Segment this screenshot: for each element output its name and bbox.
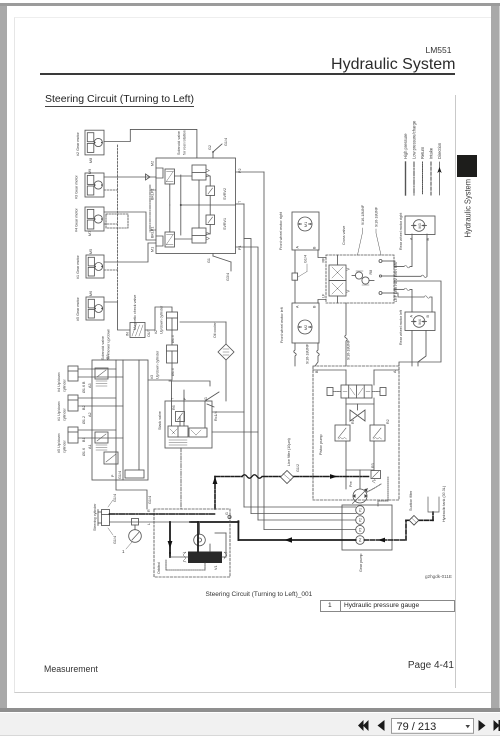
svg-text:cylinder: cylinder bbox=[63, 408, 67, 421]
relief SVRV2 bbox=[206, 186, 215, 196]
svg-text:BKLP2: BKLP2 bbox=[151, 189, 155, 200]
svg-text:G3/4: G3/4 bbox=[226, 273, 230, 281]
viewer bottom shadow band bbox=[0, 708, 500, 712]
stack valve hatch bbox=[169, 440, 187, 445]
wire front B to RF bbox=[318, 250, 326, 258]
drain stubs dashed bbox=[104, 189, 118, 191]
legend labels bbox=[403, 120, 442, 159]
svg-text:M8: M8 bbox=[89, 158, 93, 163]
gear motor M8 (#2) bbox=[85, 130, 104, 155]
steering spool block bbox=[188, 552, 222, 564]
spool valve SV1 bbox=[192, 228, 210, 243]
shuttle valve R8 bbox=[352, 271, 374, 285]
svg-text:Intake: Intake bbox=[429, 147, 434, 159]
Rc1/4 diagonal bbox=[207, 404, 214, 407]
chapter tab vertical text bbox=[459, 178, 475, 238]
svg-text:Ø1.2: Ø1.2 bbox=[82, 416, 86, 424]
hydraulic tank bbox=[428, 497, 439, 512]
svg-text:Ø1.0: Ø1.0 bbox=[171, 368, 175, 376]
svg-text:Magnetic check valve: Magnetic check valve bbox=[133, 295, 137, 330]
svg-text:High pressure: High pressure bbox=[403, 133, 408, 159]
svg-text:9/16-18UNF: 9/16-18UNF bbox=[375, 206, 379, 227]
viewer top shadow band bbox=[0, 3, 500, 6]
solenoid valve sym c bbox=[104, 452, 118, 464]
relief R2 bbox=[370, 425, 385, 441]
svg-text:Gear pump: Gear pump bbox=[359, 554, 363, 572]
svg-text:RF: RF bbox=[322, 257, 326, 263]
svg-text:cylinder: cylinder bbox=[63, 440, 67, 453]
cross valve spool bbox=[329, 255, 350, 303]
svg-text:G1/4: G1/4 bbox=[118, 471, 122, 479]
internal bus bbox=[180, 175, 236, 235]
node G1 bbox=[213, 254, 231, 272]
svg-text:Direction: Direction bbox=[437, 142, 442, 159]
pressure gauge 1 bbox=[129, 530, 142, 543]
footer: Page 4-41 bbox=[408, 660, 454, 671]
stack valve SV bbox=[165, 401, 212, 448]
svg-text:Ø1.6: Ø1.6 bbox=[82, 448, 86, 456]
rear wheel motor right M3 bbox=[405, 216, 435, 235]
front wheel motor left M2 bbox=[292, 303, 319, 343]
port wires to right edge bbox=[382, 261, 394, 293]
header rule bbox=[40, 73, 455, 74]
svg-text:Piston pump: Piston pump bbox=[319, 435, 323, 456]
wire oil cooler bottom bbox=[225, 360, 227, 401]
svg-text:R3: R3 bbox=[371, 463, 375, 468]
gear motor M5 (#1) bbox=[86, 255, 104, 278]
svg-text:#3 Gear motor: #3 Gear motor bbox=[75, 174, 79, 199]
bowtie valve bbox=[346, 404, 374, 421]
gauge leader bbox=[126, 542, 132, 549]
orbitrol internal thin bbox=[166, 533, 226, 570]
svg-text:V1: V1 bbox=[214, 565, 218, 570]
cross valve port circles bbox=[379, 260, 382, 295]
cylinder #1 wires bbox=[78, 398, 123, 406]
gear pump port P3 bbox=[356, 525, 365, 534]
svg-text:P1: P1 bbox=[359, 508, 363, 512]
parts table bbox=[320, 600, 455, 612]
svg-text:#1 Gear motor: #1 Gear motor bbox=[76, 254, 80, 279]
svg-text:BKLP1: BKLP1 bbox=[151, 227, 155, 238]
orbitrol gerotor bbox=[194, 522, 206, 546]
swash directional valve bbox=[341, 385, 372, 398]
scan edge vertical line bbox=[455, 95, 456, 688]
gear pump port P1 bbox=[356, 506, 365, 515]
svg-text:B: B bbox=[313, 246, 317, 249]
svg-text:B: B bbox=[315, 370, 319, 373]
left spool bottom bbox=[165, 205, 175, 247]
orbitrol box bbox=[154, 509, 230, 577]
magnetic check valve bbox=[130, 323, 145, 338]
svg-text:A: A bbox=[296, 246, 300, 249]
node G orbitrol bbox=[228, 515, 231, 518]
svg-text:T: T bbox=[238, 200, 242, 203]
svg-text:M4: M4 bbox=[418, 319, 422, 324]
svg-text:G: G bbox=[225, 512, 229, 515]
footer: Measurement bbox=[44, 664, 98, 674]
hose RRR to rear right B bbox=[394, 234, 427, 278]
svg-text:A: A bbox=[393, 370, 397, 373]
svg-text:SVRV2: SVRV2 bbox=[223, 188, 227, 200]
svg-text:B1: B1 bbox=[82, 437, 86, 442]
hose RRF to rear right A bbox=[394, 234, 412, 268]
up/down cylinder #5 bbox=[68, 427, 78, 443]
svg-text:M7: M7 bbox=[88, 231, 92, 236]
svg-text:G2: G2 bbox=[208, 145, 212, 150]
svg-text:R2: R2 bbox=[386, 419, 390, 424]
valve risers bbox=[313, 370, 399, 425]
svg-text:P: P bbox=[111, 474, 115, 477]
intake arrow bbox=[378, 538, 385, 543]
viewer right gray strip bbox=[491, 6, 499, 710]
svg-text:A: A bbox=[296, 305, 300, 308]
gear motor M6 (#5) bbox=[86, 297, 104, 320]
stack valve top feeds bbox=[169, 381, 210, 401]
line filter diamond bbox=[281, 471, 294, 484]
dotted return RC bbox=[367, 477, 388, 507]
legend high pressure line bbox=[405, 162, 407, 195]
thick charge dash-dot horizontal bbox=[215, 476, 370, 478]
wire M9 to M2 port bbox=[104, 176, 156, 178]
svg-text:P2: P2 bbox=[359, 518, 363, 522]
svg-text:A: A bbox=[410, 315, 414, 318]
svg-text:#3: #3 bbox=[150, 375, 154, 379]
G1/4 leader bbox=[298, 264, 307, 277]
svg-text:1: 1 bbox=[122, 549, 125, 554]
gauge tee bbox=[132, 519, 139, 530]
wire cyl3 to block bbox=[148, 363, 172, 380]
wire M7 to M1 notch bbox=[104, 212, 156, 240]
svg-text:L: L bbox=[147, 523, 151, 525]
hose vertical to pump bbox=[345, 303, 348, 366]
svg-text:M3: M3 bbox=[418, 223, 422, 228]
svg-text:P2: P2 bbox=[238, 168, 242, 173]
cylinder #5 wires bbox=[78, 430, 123, 438]
svg-text:M9: M9 bbox=[88, 169, 92, 174]
solenoid valve sym a bbox=[95, 368, 108, 386]
pump internal drops bbox=[346, 441, 374, 489]
solenoid block (mower up/down) bbox=[92, 360, 148, 480]
svg-text:Front wheel motor right: Front wheel motor right bbox=[279, 212, 283, 250]
G diagonal bbox=[205, 392, 219, 401]
svg-text:G1: G1 bbox=[207, 258, 211, 263]
schematic text part1 bbox=[75, 130, 243, 321]
oil cooler bbox=[218, 344, 234, 360]
svg-text:Pre: Pre bbox=[349, 481, 353, 487]
legend direction arrow bbox=[437, 162, 441, 195]
stack valve right wires bbox=[212, 412, 258, 432]
svg-text:G1/4: G1/4 bbox=[113, 494, 117, 502]
svg-text:M1: M1 bbox=[151, 247, 155, 252]
svg-text:OUT: OUT bbox=[147, 328, 151, 337]
wire M5 to block bbox=[104, 243, 156, 262]
gear pump port P4 bbox=[356, 536, 365, 545]
junction triangle bbox=[146, 174, 151, 180]
svg-text:Ø1.6 B: Ø1.6 B bbox=[82, 381, 86, 393]
feed arrow down bbox=[168, 541, 173, 549]
wire M8 to top port bbox=[104, 129, 197, 158]
thick return line bbox=[190, 521, 356, 540]
orifice wire bbox=[171, 330, 173, 345]
legend low pressure/charge line bbox=[413, 162, 415, 195]
svg-text:G1/4: G1/4 bbox=[148, 496, 152, 504]
wire M6 to magnetic check valve bbox=[104, 302, 130, 330]
svg-text:Oil cooler: Oil cooler bbox=[213, 322, 217, 338]
svg-text:IN: IN bbox=[126, 332, 130, 336]
P1 long drop bbox=[236, 247, 259, 520]
hose LRF to rear left B bbox=[394, 293, 432, 312]
rear wheel motor left M4 bbox=[405, 312, 435, 331]
svg-text:Front wheel motor left: Front wheel motor left bbox=[280, 307, 284, 343]
svg-text:B: B bbox=[426, 315, 430, 318]
thin cylinder return bbox=[110, 521, 191, 523]
svg-text:#4 Up/down: #4 Up/down bbox=[57, 372, 61, 392]
svg-text:9/16-18UNF: 9/16-18UNF bbox=[347, 339, 351, 360]
suction filter diamond bbox=[409, 516, 419, 526]
pilot lines dashed bbox=[327, 388, 386, 396]
svg-text:R6: R6 bbox=[172, 405, 176, 410]
svg-text:A3: A3 bbox=[88, 383, 92, 388]
up/down cylinder #2 bbox=[167, 312, 178, 330]
wires rear left down to pump bbox=[412, 331, 426, 367]
svg-text:Solenoid valve: Solenoid valve bbox=[177, 131, 181, 155]
solenoid valve sym b bbox=[95, 432, 108, 450]
wires front-left down to pump B bbox=[294, 343, 320, 366]
up/down cylinder #4 bbox=[68, 366, 78, 381]
wire oil cooler top bbox=[225, 322, 227, 344]
svg-text:G1/2: G1/2 bbox=[296, 464, 300, 472]
svg-text:Up/down cylinder: Up/down cylinder bbox=[156, 350, 160, 379]
bottom toolbar bbox=[0, 713, 500, 736]
relief R6 bbox=[176, 412, 185, 422]
stack valve internal wires bbox=[172, 401, 206, 428]
svg-text:Rc1/4: Rc1/4 bbox=[214, 411, 218, 421]
svg-text:LF: LF bbox=[322, 293, 326, 298]
svg-text:P4: P4 bbox=[359, 538, 363, 542]
toolbar controls bbox=[0, 713, 500, 736]
svg-text:G1/4: G1/4 bbox=[113, 536, 117, 544]
return arrow bbox=[285, 537, 293, 543]
svg-text:#5 Gear motor: #5 Gear motor bbox=[76, 296, 80, 321]
svg-text:Solenoid valve: Solenoid valve bbox=[101, 336, 105, 360]
dash-dot brake lines BKLP bbox=[150, 185, 156, 232]
svg-text:LRF LRR REV RRR RRF: LRF LRR REV RRR RRF bbox=[394, 260, 398, 302]
wire front-left B to LF bbox=[318, 300, 326, 304]
svg-text:9/16-18UNF: 9/16-18UNF bbox=[306, 343, 310, 364]
piston pump assembly box bbox=[313, 366, 399, 500]
svg-text:9/16-18UNF: 9/16-18UNF bbox=[361, 204, 365, 225]
svg-text:#2: #2 bbox=[154, 330, 158, 334]
gear pump body bbox=[342, 505, 392, 550]
dashed pilot box near M7 bbox=[106, 214, 128, 228]
svg-text:Suction filter: Suction filter bbox=[409, 490, 413, 511]
legend return line bbox=[422, 162, 424, 195]
hose squiggle bbox=[242, 475, 262, 479]
block buses bbox=[116, 360, 139, 480]
up/down cylinder #3 bbox=[167, 345, 178, 363]
case drain dashed bus bbox=[117, 145, 119, 302]
charge arrow up bbox=[213, 477, 218, 485]
charge arrow right bbox=[330, 474, 338, 479]
gear motor M7 (#4) bbox=[85, 207, 104, 231]
svg-text:Steering cylinder: Steering cylinder bbox=[93, 503, 97, 531]
svg-text:R: R bbox=[147, 509, 151, 512]
svg-text:#4 Gear motor: #4 Gear motor bbox=[75, 207, 79, 232]
svg-text:#5 Up/down: #5 Up/down bbox=[57, 433, 61, 453]
P2 return bbox=[264, 529, 356, 531]
thick charge dash-dot up bbox=[214, 477, 216, 510]
svg-text:Stack valve: Stack valve bbox=[158, 411, 162, 430]
svg-text:B3: B3 bbox=[106, 354, 110, 359]
spool riser thick bbox=[170, 522, 198, 557]
relief SVRV1 bbox=[206, 215, 215, 225]
svg-text:B2: B2 bbox=[82, 405, 86, 410]
svg-text:cylinder: cylinder bbox=[63, 379, 67, 392]
viewer left gray strip bbox=[0, 6, 7, 710]
svg-text:Return: Return bbox=[420, 146, 425, 159]
svg-text:SVRV1: SVRV1 bbox=[223, 218, 227, 230]
svg-text:M5: M5 bbox=[89, 249, 93, 254]
svg-text:Orbitrol: Orbitrol bbox=[157, 562, 161, 574]
T branch drop bbox=[244, 239, 251, 514]
wire P2 from block bbox=[236, 171, 265, 173]
drawing code bbox=[425, 574, 452, 579]
left spool top bbox=[165, 169, 175, 205]
header: model code LM551 bbox=[426, 45, 452, 55]
front wheel motor right M1 bbox=[292, 212, 319, 250]
P2 long drop bbox=[263, 172, 265, 530]
svg-text:A: A bbox=[410, 237, 414, 240]
wire front A line with test port bbox=[292, 250, 298, 303]
T return to P1 bbox=[244, 506, 356, 508]
svg-text:Low pressure/charge: Low pressure/charge bbox=[412, 120, 417, 159]
svg-text:Cross valve: Cross valve bbox=[342, 226, 346, 245]
block bottom fitting bbox=[116, 470, 147, 509]
T long drop bbox=[243, 204, 245, 507]
piston pump circle bbox=[353, 489, 368, 504]
svg-text:Up/down cylinder: Up/down cylinder bbox=[160, 305, 164, 334]
wire check valve out bbox=[145, 307, 172, 330]
svg-text:G: G bbox=[204, 397, 208, 400]
block internal wires bbox=[198, 180, 200, 228]
svg-text:P1: P1 bbox=[238, 245, 242, 250]
wire T from block bbox=[236, 203, 245, 205]
svg-text:B: B bbox=[313, 305, 317, 308]
hose LRR to rear left A bbox=[394, 288, 412, 312]
svg-text:M2: M2 bbox=[304, 325, 308, 330]
REV wire down to pump A bbox=[394, 281, 441, 366]
relief R1 bbox=[335, 425, 350, 441]
svg-text:G1/4: G1/4 bbox=[304, 255, 308, 263]
steering cylinder bbox=[98, 510, 110, 526]
svg-text:R8: R8 bbox=[369, 270, 373, 275]
svg-text:Hydraulic tank (30.3L): Hydraulic tank (30.3L) bbox=[442, 486, 446, 522]
cylinder #4 wires bbox=[78, 369, 123, 377]
svg-text:Ø1.0: Ø1.0 bbox=[171, 335, 175, 343]
gear motor M9 (#3) bbox=[85, 173, 104, 197]
svg-text:for reel rotation: for reel rotation bbox=[183, 130, 187, 155]
spool valve SV2 bbox=[192, 165, 210, 180]
9/16UNF diagonal stubs bbox=[358, 228, 382, 255]
M2 port notch bbox=[156, 168, 163, 178]
svg-text:M6: M6 bbox=[89, 291, 93, 296]
svg-text:R1: R1 bbox=[351, 419, 355, 424]
svg-text:P3: P3 bbox=[359, 528, 363, 532]
svg-text:A2: A2 bbox=[88, 412, 92, 417]
svg-text:Rear wheel motor right: Rear wheel motor right bbox=[399, 213, 403, 250]
gear pump port P2 bbox=[356, 516, 365, 525]
spool springs bbox=[183, 552, 227, 562]
stack valve spool b bbox=[189, 428, 207, 437]
svg-text:Rear wheel motor left: Rear wheel motor left bbox=[399, 310, 403, 345]
svg-text:G1/4: G1/4 bbox=[224, 138, 228, 146]
svg-text:#1 Up/down: #1 Up/down bbox=[57, 401, 61, 421]
legend intake line bbox=[430, 162, 432, 195]
solenoid valve block for reel rotation U1 bbox=[156, 158, 236, 254]
P1 return bbox=[258, 519, 356, 521]
stack valve drop to orbitrol dash-dot bbox=[180, 448, 182, 509]
thick steer dash-dot bbox=[110, 513, 216, 515]
up/down cylinder #1 bbox=[68, 395, 78, 411]
cross valve CV bbox=[326, 255, 394, 303]
stack valve spool a bbox=[168, 426, 188, 437]
svg-text:A1: A1 bbox=[88, 444, 92, 449]
svg-text:M1: M1 bbox=[304, 222, 308, 227]
thick intake dashed bbox=[364, 512, 433, 540]
svg-text:Line filter (10µm): Line filter (10µm) bbox=[287, 438, 291, 466]
figure caption bbox=[206, 591, 313, 598]
node G2 bbox=[212, 144, 222, 158]
branch return bbox=[251, 513, 356, 515]
orbitrol thick feed bbox=[169, 522, 171, 553]
header: chapter title bbox=[331, 56, 455, 74]
M1 port notch bbox=[156, 236, 163, 246]
section heading bbox=[45, 93, 194, 107]
svg-text:M2: M2 bbox=[151, 161, 155, 166]
relief R3 bbox=[371, 471, 381, 484]
G1/4 leaders bbox=[108, 500, 113, 535]
chapter tab (black) bbox=[457, 155, 477, 178]
svg-text:#2 Gear motor: #2 Gear motor bbox=[76, 131, 80, 156]
